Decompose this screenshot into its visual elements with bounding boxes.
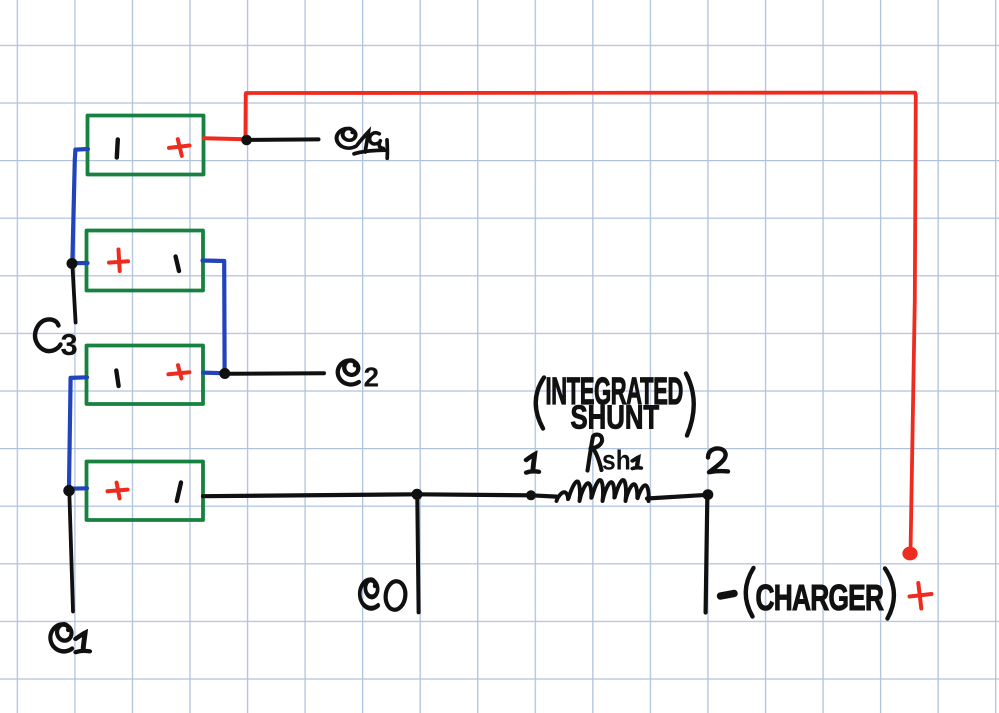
label shunt left parenthesis [536, 378, 544, 429]
label C1C4 letter c [370, 133, 380, 144]
node C4 junction dot [241, 135, 252, 146]
label INTEGRATED [546, 369, 684, 412]
label C1C4 letter C [337, 128, 357, 148]
B4 negative terminal mark [117, 140, 118, 158]
label C3 letter C [35, 319, 60, 351]
label CHARGER [756, 577, 885, 618]
label C1C4 digit 1 [354, 132, 386, 154]
battery cell B3 body [87, 231, 204, 291]
wire blue stub node N1 to B1 positive [69, 486, 87, 491]
node N3 junction dot [67, 258, 78, 269]
label C1C4 digit 4 [379, 140, 387, 159]
B2 positive terminal mark [168, 365, 189, 378]
label Rsh1 letter R [588, 435, 603, 471]
label C1 letter C [50, 624, 72, 651]
label charger minus sign [721, 594, 735, 597]
label shunt pin 2 [708, 448, 728, 472]
svg-text:CHARGER: CHARGER [756, 577, 885, 618]
svg-text:3: 3 [61, 327, 78, 362]
label C3 digit 3 [61, 327, 78, 362]
label SHUNT [571, 399, 660, 436]
wire black node N2 to C2 label [230, 371, 324, 376]
label shunt right parenthesis [686, 374, 694, 436]
wire blue stub B2 positive to node N2 [203, 371, 223, 376]
B4 positive terminal mark [169, 139, 190, 156]
wire black shunt to node 2 [647, 495, 708, 499]
node shunt pin 2 junction dot [703, 489, 714, 500]
node N1 junction dot [63, 485, 74, 496]
node N2 junction dot [219, 368, 230, 379]
wire black node C4 to C1C4 label [251, 137, 319, 142]
wire black main bus B1 negative to shunt [203, 494, 557, 496]
label Rsh1 subscript 1 [633, 457, 642, 468]
label charger plus sign red [910, 583, 932, 609]
label C2 letter C [338, 360, 359, 384]
wire black C0 tap vertical [417, 500, 418, 613]
wire blue B2 negative to node N1 [69, 377, 87, 487]
node charger positive red blob [902, 547, 917, 561]
svg-text:SHUNT: SHUNT [571, 399, 660, 436]
resistor Rsh1 scribble body [557, 480, 649, 501]
wire black C3 tap stub [73, 267, 76, 323]
B3 negative terminal mark [176, 257, 179, 272]
node C0 tap junction dot [412, 489, 423, 500]
B3 positive terminal mark [109, 250, 128, 272]
B1 positive terminal mark [108, 483, 128, 499]
label C2 digit 2 [364, 362, 380, 393]
battery cell B2 body [87, 346, 204, 405]
wire black C1 tap stub [69, 495, 73, 612]
node shunt pin 1 junction dot [526, 490, 536, 500]
label C0 digit 0 [384, 580, 407, 611]
wire red charger positive run [245, 93, 915, 547]
svg-text:2: 2 [364, 362, 380, 393]
wire blue stub node N3 to B3 positive [74, 261, 88, 265]
label C1 digit 1 [76, 633, 90, 652]
wire blue B3 negative to node N2 [203, 261, 225, 372]
B1 negative terminal mark [177, 483, 181, 502]
label charger right parenthesis [885, 569, 894, 619]
label shunt pin 1 [526, 454, 539, 472]
label Rsh1 letters sh [602, 444, 631, 476]
wire red B4 positive to node C4 [204, 138, 245, 139]
wire blue B4 negative to node N3 [72, 149, 88, 261]
label C0 letter C [360, 580, 378, 609]
wire black charger-negative tap vertical [706, 500, 708, 613]
label charger left parenthesis [746, 568, 754, 617]
svg-text:sh: sh [602, 444, 631, 476]
B2 negative terminal mark [116, 371, 118, 387]
battery cell B1 body [87, 462, 204, 521]
battery cell B4 body [88, 116, 204, 175]
